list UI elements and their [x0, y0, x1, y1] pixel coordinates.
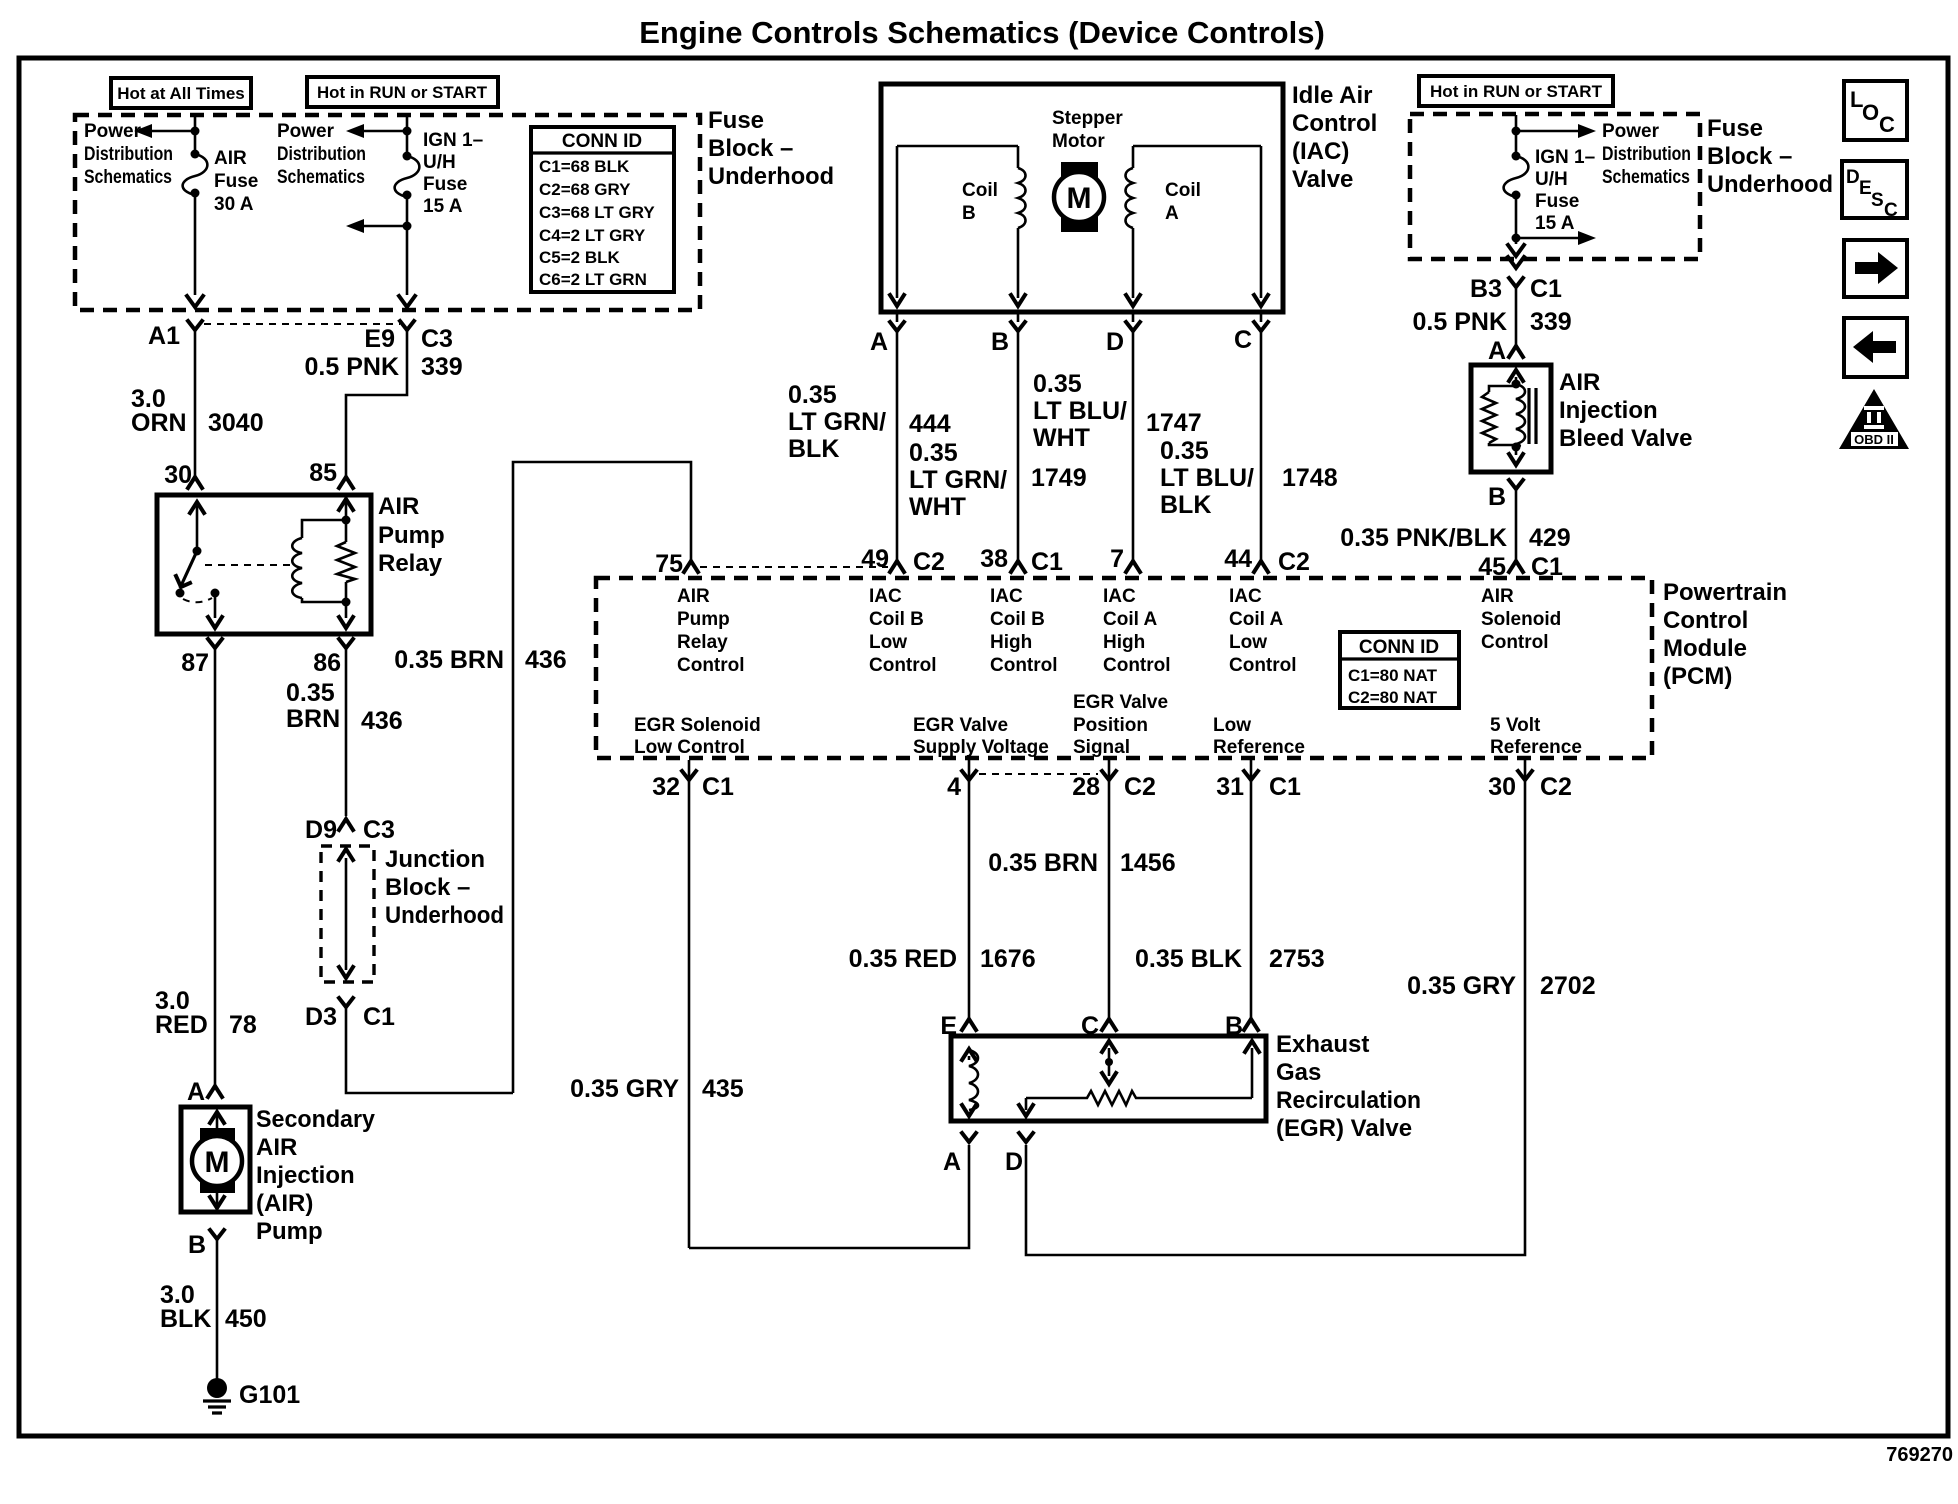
svg-text:IGN 1–: IGN 1–: [423, 130, 483, 151]
PCM pin function: 5 Volt Reference: [1490, 715, 1582, 758]
connector: PCM pin 7: [1110, 545, 1140, 573]
label: Hot in RUN or START (right): [1419, 76, 1613, 106]
wire 2702: 0.35 GRY (PCM 30 to EGR D): [1407, 972, 1595, 1000]
svg-text:High: High: [1103, 632, 1145, 653]
svg-text:Coil: Coil: [962, 180, 998, 201]
svg-text:78: 78: [229, 1011, 257, 1039]
svg-text:1456: 1456: [1120, 849, 1176, 877]
svg-text:Control: Control: [1229, 655, 1297, 676]
PCM pin function: AIR Pump Relay Control: [677, 586, 745, 676]
svg-text:86: 86: [313, 649, 341, 677]
svg-text:Pump: Pump: [256, 1218, 323, 1245]
svg-text:Power: Power: [84, 121, 142, 142]
svg-text:0.35: 0.35: [1160, 437, 1209, 465]
label: Hot in RUN or START (left): [307, 77, 498, 107]
svg-text:0.35 PNK/BLK: 0.35 PNK/BLK: [1340, 524, 1507, 552]
svg-text:D3: D3: [305, 1003, 337, 1031]
label: Stepper Motor: [1052, 108, 1123, 152]
svg-text:D: D: [1106, 328, 1124, 356]
svg-text:LT BLU/: LT BLU/: [1160, 464, 1254, 492]
svg-text:BRN: BRN: [286, 705, 340, 733]
connector: PCM pin 38 C1: [980, 545, 1063, 576]
svg-text:IAC: IAC: [869, 586, 902, 607]
connector: PCM pin 28 C2: [1072, 760, 1156, 1018]
connector B3 / C1: [1470, 275, 1562, 303]
svg-text:A: A: [1488, 337, 1506, 365]
svg-text:0.5 PNK: 0.5 PNK: [305, 353, 399, 381]
svg-text:CONN ID: CONN ID: [1359, 637, 1439, 658]
relay K1: AIR Pump Relay box: [157, 495, 371, 634]
EGR position sensor wiper (pin C): [1102, 1041, 1116, 1084]
svg-text:32: 32: [652, 773, 680, 801]
wire 339: 0.5 PNK from E9 to relay pin 85: [305, 330, 463, 488]
svg-text:Pump: Pump: [378, 522, 445, 549]
connector: PCM pin 4: [947, 760, 1098, 1018]
svg-text:U/H: U/H: [1535, 169, 1568, 190]
svg-text:EGR Solenoid: EGR Solenoid: [634, 715, 761, 736]
svg-text:C1: C1: [363, 1003, 395, 1031]
svg-text:436: 436: [361, 707, 403, 735]
svg-text:Supply Voltage: Supply Voltage: [913, 737, 1049, 758]
PCM pin function: IAC Coil B Low Control: [869, 586, 937, 676]
svg-text:C: C: [1884, 200, 1898, 221]
connector: EGR pin D: [1005, 1133, 1033, 1176]
svg-text:87: 87: [181, 649, 209, 677]
wire 435: 0.35 GRY (PCM 32 to EGR A): [570, 1075, 969, 1248]
svg-text:3040: 3040: [208, 409, 264, 437]
svg-text:Coil A: Coil A: [1103, 609, 1157, 630]
svg-text:(EGR) Valve: (EGR) Valve: [1276, 1115, 1412, 1142]
wire 1676: 0.35 RED (PCM 4 to EGR E): [849, 945, 1036, 973]
svg-text:(PCM): (PCM): [1663, 663, 1732, 690]
svg-text:Fuse: Fuse: [1535, 191, 1579, 212]
relay switch contact 30-87: [176, 502, 223, 628]
svg-text:0.35 BRN: 0.35 BRN: [394, 646, 504, 674]
svg-text:C: C: [1879, 112, 1895, 137]
svg-text:Hot at All Times: Hot at All Times: [117, 84, 245, 103]
svg-text:Hot in RUN or START: Hot in RUN or START: [1430, 82, 1603, 101]
svg-text:0.35: 0.35: [909, 439, 958, 467]
svg-text:A: A: [187, 1078, 205, 1106]
svg-text:Reference: Reference: [1213, 737, 1305, 758]
svg-text:435: 435: [702, 1075, 744, 1103]
PCM pin function: IAC Coil B High Control: [990, 586, 1058, 676]
label: Power Distribution Schematics (right): [1602, 121, 1691, 188]
svg-text:Reference: Reference: [1490, 737, 1582, 758]
PCM pin function: IAC Coil A Low Control: [1229, 586, 1297, 676]
connector: bleed valve pin B: [1488, 480, 1523, 511]
svg-text:4: 4: [947, 773, 961, 801]
label: Secondary AIR Injection (AIR) Pump: [256, 1106, 376, 1245]
svg-text:Coil B: Coil B: [990, 609, 1045, 630]
connector: EGR pin A: [943, 1133, 976, 1176]
svg-text:Coil: Coil: [1165, 180, 1201, 201]
wire 2753: 0.35 BLK (PCM 31 to EGR B): [1135, 945, 1325, 973]
svg-text:769270: 769270: [1886, 1444, 1953, 1466]
svg-text:1676: 1676: [980, 945, 1036, 973]
svg-text:Recirculation: Recirculation: [1276, 1087, 1421, 1114]
connector: IAC pin A: [870, 310, 904, 356]
svg-text:C2: C2: [1540, 773, 1572, 801]
relay coil with parallel resistor: [205, 499, 355, 628]
svg-text:Coil B: Coil B: [869, 609, 924, 630]
svg-text:C6=2 LT GRN: C6=2 LT GRN: [539, 270, 647, 289]
svg-text:Exhaust: Exhaust: [1276, 1031, 1369, 1058]
svg-text:49: 49: [861, 545, 889, 573]
svg-text:IAC: IAC: [1229, 586, 1262, 607]
svg-text:1747: 1747: [1146, 409, 1202, 437]
svg-text:Motor: Motor: [1052, 131, 1105, 152]
svg-text:Control: Control: [1292, 110, 1377, 137]
svg-text:44: 44: [1224, 545, 1252, 573]
svg-text:75: 75: [655, 550, 683, 578]
svg-text:Fuse: Fuse: [423, 174, 467, 195]
svg-text:Low: Low: [1213, 715, 1251, 736]
fuse: IGN 1 U/H Fuse 15 A (right block): [1504, 147, 1596, 234]
wire: fuse output down to A1: [187, 193, 203, 307]
wire 429: 0.35 PNK/BLK to PCM 45: [1340, 489, 1570, 560]
connector D3 / C1: [305, 998, 395, 1031]
svg-text:Control: Control: [677, 655, 745, 676]
svg-text:B: B: [991, 328, 1009, 356]
svg-text:0.35: 0.35: [788, 381, 837, 409]
wire 436: 0.35 BRN loop up to PCM pin 75: [394, 462, 691, 1093]
svg-text:Valve: Valve: [1292, 166, 1353, 193]
svg-text:AIR: AIR: [1559, 369, 1600, 396]
svg-text:BLK: BLK: [160, 1305, 211, 1333]
svg-text:429: 429: [1529, 524, 1571, 552]
svg-text:0.35 BLK: 0.35 BLK: [1135, 945, 1242, 973]
label: AIR Injection Bleed Valve: [1559, 369, 1692, 452]
svg-text:450: 450: [225, 1305, 267, 1333]
svg-text:Fuse: Fuse: [1707, 115, 1763, 142]
fuse: IGN 1 U/H Fuse 15 A (left block): [395, 130, 484, 217]
connector: EGR pin C: [1081, 1012, 1116, 1040]
svg-text:C2: C2: [1124, 773, 1156, 801]
svg-text:WHT: WHT: [1033, 424, 1090, 452]
svg-text:AIR: AIR: [256, 1134, 297, 1161]
svg-text:D: D: [1846, 167, 1860, 188]
svg-text:B: B: [188, 1231, 206, 1259]
svg-text:A: A: [870, 328, 888, 356]
PCM pin function: AIR Solenoid Control: [1481, 586, 1561, 653]
wire: IGN1 feed into U/H fuse (left block): [346, 116, 412, 156]
svg-text:Hot in RUN or START: Hot in RUN or START: [317, 83, 488, 102]
connector: IAC pin B: [991, 310, 1025, 356]
wire: IGN1 feed into U/H fuse (right block): [1512, 115, 1597, 156]
connector: PCM pin 31 C1: [1216, 760, 1301, 1018]
label: Fuse Block - Underhood (left): [708, 107, 834, 190]
svg-text:Bleed Valve: Bleed Valve: [1559, 425, 1692, 452]
wire 3040: 3.0 ORN to relay pin 30: [131, 330, 264, 489]
PCM dashed box: [596, 578, 1652, 758]
svg-text:Engine Controls Schematics (De: Engine Controls Schematics (Device Contr…: [639, 15, 1325, 50]
svg-text:C1=80 NAT: C1=80 NAT: [1348, 666, 1438, 685]
svg-text:B: B: [962, 203, 976, 224]
wire 1748: 0.35 LT BLU/BLK (IAC C to PCM 44): [1160, 331, 1338, 560]
svg-text:0.35: 0.35: [1033, 370, 1082, 398]
svg-text:C: C: [1234, 326, 1252, 354]
svg-text:AIR: AIR: [677, 586, 710, 607]
svg-text:Pump: Pump: [677, 609, 730, 630]
svg-text:Underhood: Underhood: [1707, 171, 1833, 198]
connector: EGR pin E: [940, 1012, 976, 1040]
svg-text:Control: Control: [990, 655, 1058, 676]
svg-text:0.35 BRN: 0.35 BRN: [988, 849, 1098, 877]
svg-text:Injection: Injection: [1559, 397, 1658, 424]
svg-text:Block –: Block –: [1707, 143, 1792, 170]
connector E9 / C3: [364, 321, 453, 353]
svg-text:C3=68 LT GRY: C3=68 LT GRY: [539, 203, 655, 222]
PCM pin function: EGR Valve Position Signal: [1073, 692, 1168, 758]
connector D9 / C3: [305, 816, 395, 844]
svg-text:Distribution: Distribution: [84, 144, 173, 165]
label: Power Distribution Schematics (left block 2): [277, 121, 366, 188]
wire 444: 0.35 LT GRN/BLK (IAC A to PCM 49): [788, 331, 951, 560]
svg-text:M: M: [1067, 182, 1092, 215]
PCM pin function: EGR Valve Supply Voltage: [913, 715, 1049, 758]
svg-text:0.35: 0.35: [286, 679, 335, 707]
svg-text:Solenoid: Solenoid: [1481, 609, 1561, 630]
connector: PCM pin 32 C1: [652, 760, 734, 1248]
svg-text:(IAC): (IAC): [1292, 138, 1349, 165]
svg-text:BLK: BLK: [788, 435, 839, 463]
icon: LOC box: [1844, 81, 1907, 140]
fuse block - underhood (right) dashed box: [1410, 114, 1700, 259]
wire: battery feed into AIR fuse: [134, 116, 200, 154]
svg-text:C2=68 GRY: C2=68 GRY: [539, 180, 631, 199]
svg-text:Powertrain: Powertrain: [1663, 579, 1787, 606]
svg-text:0.5 PNK: 0.5 PNK: [1413, 308, 1507, 336]
svg-text:O: O: [1862, 100, 1879, 125]
svg-text:C1: C1: [1530, 275, 1562, 303]
PCM pin function: Low Reference: [1213, 715, 1305, 758]
svg-text:Power: Power: [1602, 121, 1660, 142]
svg-text:436: 436: [525, 646, 567, 674]
connector ID table (68-way): [531, 127, 674, 292]
connector: relay pin 87: [181, 639, 222, 677]
svg-text:LT GRN/: LT GRN/: [909, 466, 1007, 494]
svg-text:C2: C2: [913, 548, 945, 576]
svg-text:AIR: AIR: [378, 493, 419, 520]
svg-text:Low: Low: [1229, 632, 1267, 653]
svg-text:30: 30: [1488, 773, 1516, 801]
svg-text:AIR: AIR: [214, 148, 247, 169]
svg-text:7: 7: [1110, 545, 1124, 573]
svg-text:1749: 1749: [1031, 464, 1087, 492]
svg-text:Schematics: Schematics: [277, 167, 365, 188]
svg-text:31: 31: [1216, 773, 1244, 801]
svg-text:IAC: IAC: [990, 586, 1023, 607]
svg-text:0.35 GRY: 0.35 GRY: [1407, 972, 1516, 1000]
svg-text:B3: B3: [1470, 275, 1502, 303]
svg-text:C1: C1: [1269, 773, 1301, 801]
wire 1749: 0.35 LT GRN/WHT (IAC B to PCM 38): [909, 331, 1087, 560]
icon: OBD II triangle: [1839, 389, 1909, 449]
svg-text:RED: RED: [155, 1011, 208, 1039]
svg-text:E9: E9: [364, 325, 395, 353]
wire: second tap with left arrow (left block): [346, 195, 415, 307]
svg-text:Low Control: Low Control: [634, 737, 745, 758]
label: Powertrain Control Module (PCM): [1663, 579, 1787, 690]
icon: left arrow box: [1844, 318, 1907, 377]
svg-text:30 A: 30 A: [214, 194, 254, 215]
svg-text:ORN: ORN: [131, 409, 187, 437]
svg-text:IAC: IAC: [1103, 586, 1136, 607]
svg-text:Low: Low: [869, 632, 907, 653]
svg-text:G101: G101: [239, 1381, 300, 1409]
svg-text:Gas: Gas: [1276, 1059, 1321, 1086]
svg-text:1748: 1748: [1282, 464, 1338, 492]
svg-text:A: A: [1165, 203, 1179, 224]
svg-text:D9: D9: [305, 816, 337, 844]
svg-text:Signal: Signal: [1073, 737, 1130, 758]
svg-text:M: M: [205, 1146, 230, 1179]
label: Junction Block - Underhood: [385, 846, 504, 929]
svg-text:2753: 2753: [1269, 945, 1325, 973]
svg-text:Junction: Junction: [385, 846, 485, 873]
svg-text:E: E: [1859, 178, 1872, 199]
wire 1456: 0.35 BRN (PCM 28 to EGR C): [988, 849, 1175, 877]
PCM pin function: IAC Coil A High Control: [1103, 586, 1171, 676]
label: Exhaust Gas Recirculation (EGR) Valve: [1276, 1031, 1421, 1142]
svg-text:Control: Control: [1103, 655, 1171, 676]
svg-text:S: S: [1871, 190, 1884, 211]
connector A1: [148, 321, 400, 350]
svg-text:Coil A: Coil A: [1229, 609, 1283, 630]
icon: right arrow box: [1844, 240, 1907, 297]
wire: 86 continues to corner and right: [346, 1007, 513, 1093]
connector: PCM pin 75: [655, 550, 888, 578]
svg-text:EGR Valve: EGR Valve: [1073, 692, 1168, 713]
connector: EGR pin B: [1225, 1012, 1258, 1040]
svg-text:Fuse: Fuse: [708, 107, 764, 134]
svg-text:C5=2 BLK: C5=2 BLK: [539, 248, 620, 267]
connector: PCM pin 45 C1: [1478, 553, 1563, 581]
connector ID table (80-way): [1340, 632, 1459, 708]
svg-text:C3: C3: [421, 325, 453, 353]
motor M1: Secondary AIR Injection Pump: [181, 1107, 250, 1212]
svg-text:Block –: Block –: [708, 135, 793, 162]
svg-text:38: 38: [980, 545, 1008, 573]
wire 1747: 0.35 LT BLU/WHT (IAC D to PCM 7): [1033, 331, 1202, 560]
icon: DESC box: [1842, 161, 1907, 221]
svg-text:2702: 2702: [1540, 972, 1596, 1000]
wire 78: 3.0 RED from relay 87 down to pump: [155, 648, 257, 1085]
svg-text:Module: Module: [1663, 635, 1747, 662]
connector: pump pin A: [187, 1078, 222, 1106]
EGR position sensor resistor: [1019, 1041, 1259, 1116]
PCM pin function: EGR Solenoid Low Control: [634, 715, 761, 758]
EGR solenoid coil (pin E to A): [962, 1049, 978, 1116]
svg-text:Distribution: Distribution: [277, 144, 366, 165]
fuse: AIR Fuse 30 A: [183, 148, 259, 215]
svg-text:IGN 1–: IGN 1–: [1535, 147, 1595, 168]
svg-text:C2: C2: [1278, 548, 1310, 576]
svg-text:339: 339: [1530, 308, 1572, 336]
IAC coil A: [1126, 146, 1269, 306]
svg-text:Block –: Block –: [385, 874, 470, 901]
svg-text:D: D: [1005, 1148, 1023, 1176]
svg-text:85: 85: [309, 459, 337, 487]
svg-text:Injection: Injection: [256, 1162, 355, 1189]
connector: PCM pin 30 C2: [1026, 760, 1572, 1255]
svg-text:C1: C1: [1031, 548, 1063, 576]
svg-text:AIR: AIR: [1481, 586, 1514, 607]
label: Power Distribution Schematics (left): [84, 121, 173, 188]
wire: second tap with right arrow (right block): [1508, 195, 1596, 268]
connector: PCM pin 49 C2: [861, 545, 945, 576]
svg-text:U/H: U/H: [423, 152, 456, 173]
connector: relay pin 86: [313, 639, 353, 677]
svg-text:WHT: WHT: [909, 493, 966, 521]
fuse block - underhood (left) dashed box: [75, 115, 700, 310]
svg-text:Relay: Relay: [378, 550, 443, 577]
svg-text:Idle Air: Idle Air: [1292, 82, 1372, 109]
connector: PCM pin 44 C2: [1224, 545, 1310, 576]
svg-text:A: A: [943, 1148, 961, 1176]
connector: pump pin B: [188, 1230, 224, 1259]
svg-text:0.35 RED: 0.35 RED: [849, 945, 957, 973]
svg-text:EGR Valve: EGR Valve: [913, 715, 1008, 736]
label: Idle Air Control (IAC) Valve: [1292, 82, 1377, 193]
solenoid: AIR Injection Bleed Valve: [1471, 365, 1551, 472]
svg-text:Relay: Relay: [677, 632, 728, 653]
svg-text:28: 28: [1072, 773, 1100, 801]
svg-text:BLK: BLK: [1160, 491, 1211, 519]
svg-text:CONN ID: CONN ID: [562, 131, 642, 152]
wire 436: 0.35 BRN from relay 86 down: [286, 648, 403, 816]
svg-text:C2=80 NAT: C2=80 NAT: [1348, 688, 1438, 707]
svg-text:Position: Position: [1073, 715, 1148, 736]
IAC valve box: [881, 84, 1283, 312]
svg-text:(AIR): (AIR): [256, 1190, 313, 1217]
IAC coil B: [890, 146, 1026, 306]
svg-text:Control: Control: [1663, 607, 1748, 634]
ground G101: [203, 1378, 300, 1413]
svg-text:Stepper: Stepper: [1052, 108, 1123, 129]
svg-text:Distribution: Distribution: [1602, 144, 1691, 165]
svg-text:Power: Power: [277, 121, 335, 142]
connector: bleed valve pin A: [1488, 337, 1523, 365]
svg-text:C4=2 LT GRY: C4=2 LT GRY: [539, 226, 646, 245]
label: Fuse Block - Underhood (right): [1707, 115, 1833, 198]
EGR valve box: [951, 1036, 1266, 1121]
svg-text:15 A: 15 A: [1535, 213, 1575, 234]
svg-text:B: B: [1488, 483, 1506, 511]
svg-text:OBD II: OBD II: [1854, 432, 1894, 447]
junction block - underhood dashed box: [321, 846, 374, 982]
connector: IAC pin D: [1106, 310, 1140, 356]
svg-text:0.35 GRY: 0.35 GRY: [570, 1075, 679, 1103]
svg-text:Underhood: Underhood: [708, 163, 834, 190]
wire 339: 0.5 PNK to bleed valve pin A: [1413, 287, 1572, 345]
svg-text:Fuse: Fuse: [214, 171, 258, 192]
svg-text:Secondary: Secondary: [256, 1106, 376, 1133]
svg-text:444: 444: [909, 410, 951, 438]
svg-text:339: 339: [421, 353, 463, 381]
svg-text:Control: Control: [869, 655, 937, 676]
svg-text:C1=68 BLK: C1=68 BLK: [539, 157, 630, 176]
svg-text:Schematics: Schematics: [1602, 167, 1690, 188]
wire 450: 3.0 BLK to ground: [160, 1239, 267, 1379]
label: Hot at All Times: [111, 78, 251, 108]
svg-text:High: High: [990, 632, 1032, 653]
connector: IAC pin C: [1234, 310, 1268, 354]
svg-text:C3: C3: [363, 816, 395, 844]
svg-text:5 Volt: 5 Volt: [1490, 715, 1541, 736]
svg-text:A1: A1: [148, 322, 180, 350]
